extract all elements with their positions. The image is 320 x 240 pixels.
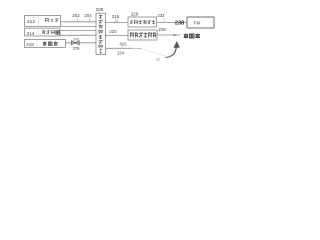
- svg-text:206: 206: [73, 37, 79, 41]
- svg-text:376: 376: [73, 46, 81, 51]
- box2: drain pump: [128, 30, 157, 40]
- svg-text:212: 212: [27, 19, 35, 25]
- valve V1 bowtie: [72, 41, 80, 45]
- box: glucose row 2: [25, 28, 61, 36]
- wire: box2 to discharge: [157, 34, 180, 36]
- faint diagonal wire: [141, 49, 166, 57]
- wire: manifold to box1: [106, 22, 129, 24]
- svg-text:220: 220: [109, 29, 117, 34]
- box: electrolyte row 3: [25, 39, 66, 47]
- svg-text:26: 26: [115, 19, 119, 23]
- box: batch tank row 1: [25, 15, 61, 26]
- svg-text:236: 236: [158, 27, 166, 32]
- svg-text:218: 218: [26, 42, 34, 47]
- row2 text ぶどう糖: [42, 30, 45, 34]
- svg-text:204: 204: [84, 13, 92, 18]
- svg-text:214: 214: [26, 31, 34, 37]
- row3 divider: [36, 39, 38, 47]
- svg-text:232: 232: [158, 13, 166, 18]
- row3 text 電解質: [43, 41, 47, 45]
- PM box: [187, 17, 214, 28]
- svg-text:202: 202: [72, 13, 80, 18]
- up-down arrows at manifold bottom: [100, 48, 103, 54]
- wire: row3 to manifold with valve: [66, 42, 97, 44]
- arrowhead on wire: [174, 34, 178, 36]
- box1 text: [130, 21, 134, 24]
- box2 text: [130, 33, 133, 38]
- svg-text:36: 36: [156, 57, 160, 61]
- svg-text:PM: PM: [194, 20, 201, 25]
- text 排出器 (discharge): [184, 33, 189, 38]
- wire: manifold to box2: [106, 35, 129, 37]
- svg-text:208: 208: [96, 7, 104, 12]
- box1: mixer unit: [128, 17, 157, 27]
- svg-text:416: 416: [119, 41, 127, 46]
- row1 divider: [38, 15, 40, 26]
- wire: box1 to PM box: [157, 22, 188, 24]
- tall box: manifold: [96, 13, 106, 54]
- wire: manifold bottom output: [106, 47, 133, 49]
- sample arrow (up): [165, 57, 166, 58]
- pipe row2 to manifold (bottom): [60, 34, 96, 36]
- row1 text バッチ: [46, 19, 49, 22]
- svg-text:134: 134: [117, 50, 125, 55]
- manifold vertical text: [99, 15, 103, 19]
- svg-text:238: 238: [175, 21, 184, 27]
- row2 divider: [37, 28, 39, 36]
- pipe row1 to manifold (bottom): [61, 25, 97, 27]
- svg-text:228: 228: [131, 12, 139, 17]
- background: [0, 0, 240, 74]
- pipe row1 to manifold (top): [61, 21, 97, 23]
- pipe row2 to manifold (top): [60, 30, 96, 32]
